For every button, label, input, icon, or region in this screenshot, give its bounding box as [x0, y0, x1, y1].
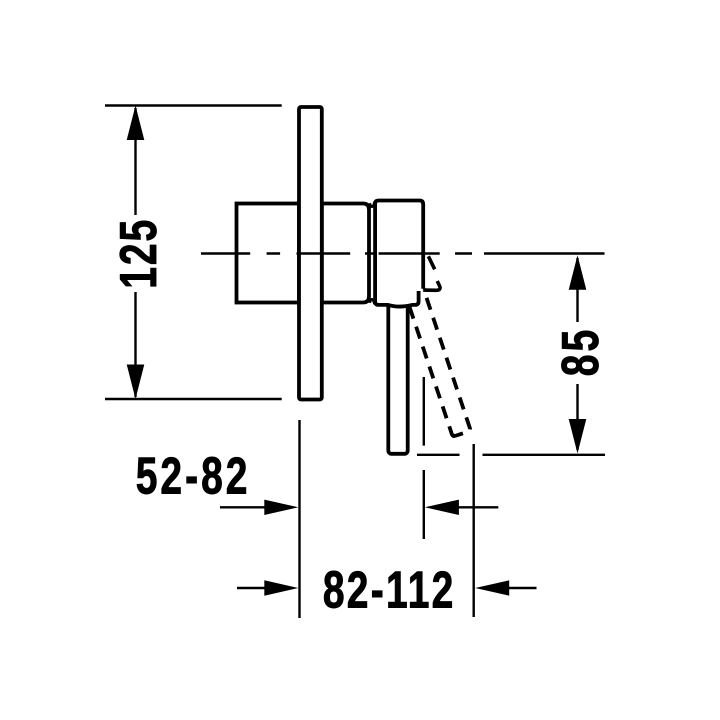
lever hub notch (right side of cap): [423, 281, 440, 290]
arrow 125 up: [127, 106, 145, 141]
wall plate (escutcheon): [299, 107, 322, 400]
body right (between plate and cap): [322, 204, 369, 303]
dim line 125: [134, 108, 136, 215]
lever dashed (open position, rotated): [394, 253, 471, 436]
label 82-112: [323, 560, 454, 619]
dim line 85: [576, 258, 578, 322]
arrow 82-112 right-pointing: [264, 580, 298, 595]
label 125: [109, 220, 168, 289]
ext line 125 bottom: [105, 398, 282, 400]
arrow 85 up: [569, 255, 587, 289]
handle cap white fill: [375, 201, 423, 305]
arrow 125 down: [127, 365, 145, 400]
center line (dash-dot axis): [201, 252, 605, 254]
junction notch bottom: [370, 299, 375, 304]
dim 82-112 left tail: [237, 587, 266, 589]
ext line 125 top: [105, 104, 282, 106]
arrow 82-112 left-pointing: [475, 580, 509, 595]
body left (in-wall valve body): [237, 204, 300, 303]
dim 52-82 right tail: [457, 506, 498, 508]
ext line vertical at plate (x=299): [298, 420, 300, 618]
handle cap outline: [375, 201, 423, 307]
lever solid (closed position): [388, 290, 407, 454]
label 85: [551, 330, 610, 377]
ext line 85 bottom (right piece): [483, 454, 606, 456]
svg-text:82-112: 82-112: [323, 560, 454, 619]
label 52-82: [136, 446, 248, 505]
dim 52-82 left tail: [220, 506, 266, 508]
svg-text:125: 125: [109, 220, 168, 289]
ext line vertical at dashed lever tip (x=474): [473, 444, 475, 617]
ext line vertical at lever (x=424): [423, 377, 425, 539]
junction notch top: [370, 202, 375, 207]
ext line 85 bottom (left piece): [417, 454, 460, 456]
lever hub tick (upper right of cap): [428, 256, 434, 269]
arrow 52-82 left-pointing: [425, 500, 459, 515]
svg-text:52-82: 52-82: [136, 446, 248, 505]
dim 82-112 right tail: [507, 587, 537, 589]
arrow 52-82 right-pointing: [264, 500, 298, 515]
arrow 85 down: [569, 419, 587, 454]
